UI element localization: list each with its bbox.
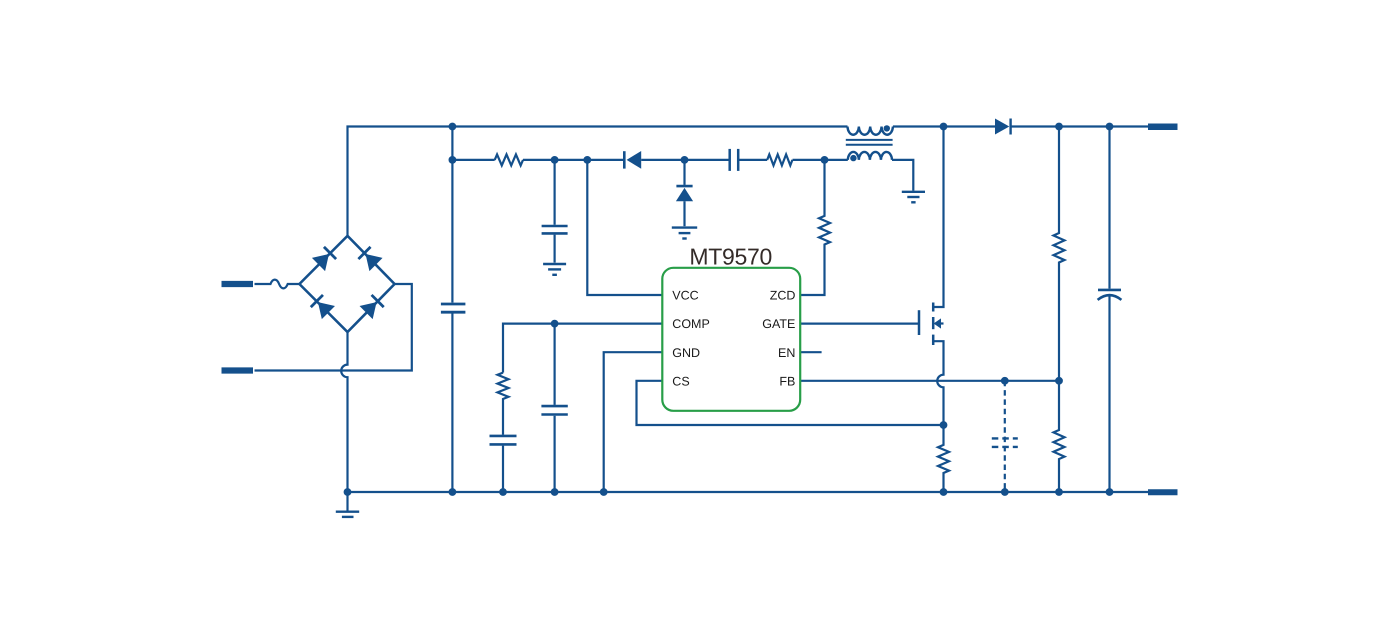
MOSFET Q1 (919, 303, 933, 346)
svg-text:VCC: VCC (672, 289, 698, 303)
node bottom rail / C7 (1106, 488, 1114, 496)
resistor R5 (FB upper divider) (1054, 127, 1065, 381)
node top rail / Q1 drain (940, 123, 948, 131)
resistor R7 (current sense) (938, 425, 949, 492)
transformer T1 core (846, 140, 893, 145)
MOSFET Q1 body arrow (936, 322, 944, 324)
node bottom rail / R6 (1055, 488, 1063, 496)
node bottom rail / C4 (499, 488, 507, 496)
wire aux winding to ground (892, 160, 913, 191)
node bottom rail / C6 (1001, 488, 1009, 496)
node second rail / VCC (583, 156, 591, 164)
wire diode to output terminal (1011, 125, 1148, 127)
input terminal J2 (neutral) (222, 367, 254, 373)
node COMP / C5 (551, 320, 559, 328)
fuse F1 (255, 280, 300, 289)
wire to diode D1 (523, 159, 624, 161)
ground under bridge (346, 492, 348, 511)
node FB / R5 R6 (1055, 377, 1063, 385)
svg-text:ZCD: ZCD (770, 289, 796, 303)
diode D3 (output rectifier) (995, 119, 1009, 135)
resistor R1 (VCC startup) (495, 154, 523, 165)
svg-text:GND: GND (672, 346, 700, 360)
capacitor C4 (COMP) (490, 436, 517, 445)
node top rail / C7 (1106, 123, 1114, 131)
svg-text:MT9570: MT9570 (689, 244, 772, 270)
node FB / C6 (1001, 377, 1009, 385)
ground (aux winding) (902, 192, 925, 203)
capacitor C3 (series, snubber) (730, 149, 739, 171)
diode D1 (pointing left) (623, 151, 626, 168)
transformer T1 primary winding (848, 127, 893, 135)
svg-text:FB: FB (779, 374, 795, 388)
wire C3 to R3 (738, 159, 767, 161)
svg-text:COMP: COMP (672, 317, 710, 331)
capacitor C2 (VCC) with ground (553, 160, 555, 263)
wire GND pin (604, 352, 663, 492)
node second rail / R4 (821, 156, 829, 164)
capacitor C6 (dashed, optional) (1004, 381, 1006, 492)
node second rail / C2 (551, 156, 559, 164)
wire input2 to bridge right vertex (255, 284, 412, 371)
diode D_bridge bottom-left (310, 294, 335, 319)
wire VCC pin (587, 160, 662, 295)
capacitor C7 (output electrolytic) (1108, 127, 1110, 289)
node bottom rail / GND (600, 488, 608, 496)
bridge rectifier BR1 edges (299, 236, 394, 332)
resistor R2 (COMP) (498, 373, 509, 435)
wire top rail after transformer (893, 125, 995, 127)
MOSFET Q1 drain wire (933, 127, 943, 308)
capacitor C5 (COMP second) (553, 324, 555, 492)
resistor R3 (snubber) (767, 154, 792, 165)
node top rail / C1 (449, 123, 457, 131)
output terminal - (1148, 489, 1178, 495)
diode D2 (clamp) with ground (683, 160, 685, 185)
transformer T1 aux winding (848, 152, 892, 160)
wire EN stub (800, 351, 821, 353)
node bottom rail / C5 (551, 488, 559, 496)
node CS / Q1 source (940, 421, 948, 429)
node second rail / D2 (681, 156, 689, 164)
wire bridge bottom to bottom rail (hop over input2 wire) (341, 332, 347, 492)
svg-text:CS: CS (672, 374, 689, 388)
transformer T1 primary polarity dot (884, 125, 890, 131)
svg-text:GATE: GATE (762, 317, 795, 331)
wire R3 to aux winding (793, 159, 848, 161)
input terminal J1 (line) (222, 281, 254, 287)
wire second rail start (452, 159, 494, 161)
node top rail / R5 (1055, 123, 1063, 131)
node bottom rail / bridge (344, 488, 352, 496)
input bulk capacitor C1 (451, 127, 453, 493)
node second rail / C1 (449, 156, 457, 164)
MOSFET Q1 source wire (hop over FB) (933, 341, 943, 425)
wire COMP pin (503, 324, 662, 373)
diode D_bridge top-right (358, 246, 383, 271)
wire D1 to C3 (641, 159, 730, 161)
resistor R4 (ZCD divider) (800, 160, 830, 295)
node bottom rail / R7 (940, 488, 948, 496)
transformer T1 aux polarity dot (850, 155, 856, 161)
wire GATE pin to MOSFET (800, 323, 919, 325)
diode D_bridge bottom-right (360, 294, 385, 319)
svg-text:EN: EN (778, 346, 795, 360)
ground (C2) (543, 264, 566, 275)
bottom rail (348, 491, 1149, 493)
resistor R6 (FB lower divider) (1054, 381, 1065, 492)
wire CS pin (637, 381, 944, 425)
output terminal + (1148, 124, 1178, 131)
op-amp U1 (controller IC MT9570 body) (662, 268, 800, 411)
diode D_bridge top-left (312, 246, 337, 271)
wire FB pin (800, 380, 1059, 382)
wire top rail (bridge top vertex up and right to transformer) (348, 127, 848, 236)
node bottom rail / C1 (449, 488, 457, 496)
ground (D2) (672, 228, 697, 239)
